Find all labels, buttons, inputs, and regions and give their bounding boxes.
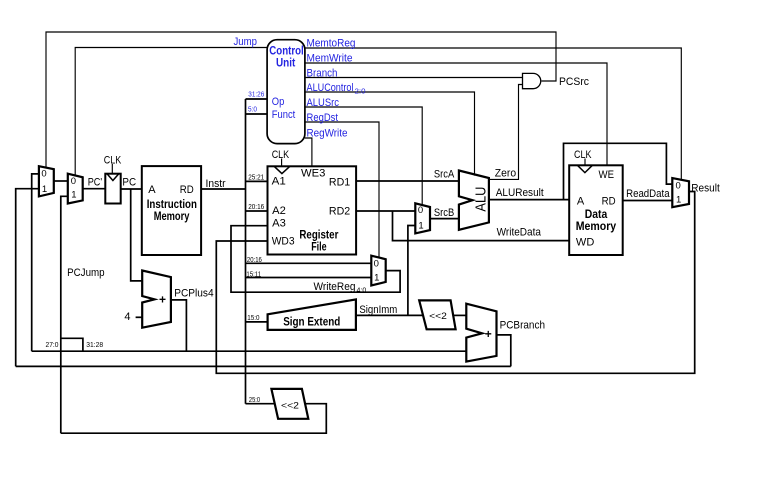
sign extend bbox=[268, 299, 356, 330]
svg-text:27:0: 27:0 bbox=[46, 342, 59, 349]
svg-text:RD1: RD1 bbox=[329, 177, 350, 189]
shifter <<2 (branch) bbox=[419, 300, 455, 329]
svg-text:20:16: 20:16 bbox=[247, 257, 262, 264]
wire ALUResult to data memory A bbox=[489, 199, 569, 201]
svg-text:WriteReg: WriteReg bbox=[314, 281, 356, 293]
adder PCBranch bbox=[466, 304, 496, 362]
svg-text:0: 0 bbox=[374, 258, 379, 269]
wire 20:16 to A2 bbox=[246, 210, 268, 212]
wire PCJump vertical into jump mux input 1 bbox=[61, 196, 68, 433]
svg-text:+: + bbox=[159, 293, 166, 307]
wire PCPlus4 feedback into PCSrc mux input 0 bbox=[32, 174, 39, 351]
svg-text:15:11: 15:11 bbox=[246, 271, 261, 278]
mux Result (0/1) bbox=[672, 178, 689, 207]
mux Jump (0/1) bbox=[68, 174, 83, 204]
svg-text:WD3: WD3 bbox=[272, 236, 295, 248]
svg-text:A: A bbox=[577, 196, 585, 208]
wire PCPlus4 adder output bbox=[171, 300, 187, 351]
svg-text:4: 4 bbox=[124, 311, 130, 323]
wire 15:0 to sign extend bbox=[246, 321, 268, 323]
svg-text:MemtoReg: MemtoReg bbox=[307, 38, 356, 50]
svg-text:PCSrc: PCSrc bbox=[559, 76, 589, 88]
svg-text:31:28: 31:28 bbox=[86, 342, 103, 349]
svg-text:Branch: Branch bbox=[307, 68, 338, 80]
svg-text:Sign Extend: Sign Extend bbox=[283, 317, 340, 329]
wire RD1 to ALU SrcA bbox=[356, 180, 459, 182]
data memory bbox=[569, 165, 623, 255]
wire Jump: control unit left to jump mux select bbox=[75, 48, 267, 176]
svg-text:SignImm: SignImm bbox=[359, 304, 397, 316]
svg-text:RD: RD bbox=[602, 196, 616, 208]
svg-text:RegDst: RegDst bbox=[307, 112, 339, 124]
svg-text:Memory: Memory bbox=[576, 221, 617, 233]
svg-text:WriteData: WriteData bbox=[497, 227, 542, 239]
wire branch adder output PCBranch bbox=[497, 335, 511, 367]
wire PCSrc net: AND output up and across top to PCSrc mux select bbox=[46, 32, 556, 168]
wire 31:28 concatenation tap bbox=[61, 338, 83, 351]
wire ALUResult bypass loop to result mux input 0 bbox=[564, 143, 673, 199]
svg-text:Op: Op bbox=[272, 96, 285, 108]
mux PCSrc (0/1) bbox=[39, 166, 54, 196]
svg-text:WE3: WE3 bbox=[301, 168, 325, 180]
svg-text:25:0: 25:0 bbox=[249, 397, 260, 404]
mux SrcB (0/1) bbox=[415, 203, 430, 233]
svg-text:SrcB: SrcB bbox=[434, 207, 454, 219]
svg-text:0: 0 bbox=[676, 180, 681, 191]
op-amp ALU bbox=[459, 171, 489, 230]
svg-text:31:26: 31:26 bbox=[248, 92, 264, 99]
svg-text:A2: A2 bbox=[272, 205, 286, 217]
svg-text:<<2: <<2 bbox=[281, 401, 299, 412]
svg-text:A: A bbox=[148, 184, 156, 196]
svg-text:A1: A1 bbox=[272, 176, 286, 188]
svg-text:2:0: 2:0 bbox=[355, 89, 366, 96]
svg-text:Register: Register bbox=[299, 229, 338, 241]
wire RD2 to SrcB mux input 0 bbox=[356, 210, 415, 212]
svg-text:CLK: CLK bbox=[272, 149, 290, 161]
register PC bbox=[105, 174, 120, 204]
svg-text:Jump: Jump bbox=[234, 36, 257, 48]
adder PCPlus4 bbox=[142, 271, 171, 328]
wire SignImm up to SrcB mux input 1 bbox=[408, 226, 415, 316]
shifter <<2 (jump) bbox=[271, 389, 308, 419]
svg-text:CLK: CLK bbox=[574, 149, 592, 161]
wire ALUSrc: control to SrcB mux select bbox=[305, 107, 422, 205]
wire PC branch down to PCPlus4 adder bbox=[131, 189, 143, 281]
svg-text:0: 0 bbox=[71, 176, 76, 187]
svg-text:Data: Data bbox=[585, 209, 608, 221]
svg-text:1: 1 bbox=[418, 220, 423, 231]
wire WriteData branch from RD2 to data memory WD bbox=[393, 211, 570, 241]
svg-text:PC: PC bbox=[122, 177, 136, 189]
svg-text:RD2: RD2 bbox=[329, 206, 350, 218]
svg-text:Instr: Instr bbox=[206, 178, 226, 190]
wire data memory CLK bbox=[584, 159, 586, 166]
svg-text:ALUSrc: ALUSrc bbox=[307, 97, 340, 109]
wire ReadData to result mux input 1 bbox=[623, 200, 673, 202]
svg-text:5:0: 5:0 bbox=[248, 107, 257, 114]
svg-text:Memory: Memory bbox=[154, 211, 190, 223]
wire branch shifter output to branch adder bbox=[453, 314, 466, 316]
svg-text:0: 0 bbox=[41, 168, 46, 179]
wire PCBranch feedback into PCSrc mux input 1 bbox=[16, 189, 39, 367]
svg-text:1: 1 bbox=[374, 272, 379, 283]
svg-text:Unit: Unit bbox=[276, 58, 295, 70]
svg-text:MemWrite: MemWrite bbox=[307, 53, 353, 65]
mux WriteReg (0/1) bbox=[371, 256, 385, 286]
wire 25:21 to A1 bbox=[246, 180, 268, 182]
svg-text:WD: WD bbox=[576, 236, 594, 248]
wire PCBranch bottom run bbox=[16, 365, 511, 367]
wire register file CLK bbox=[281, 159, 283, 167]
svg-text:PCJump: PCJump bbox=[67, 267, 105, 279]
svg-text:ReadData: ReadData bbox=[626, 188, 670, 200]
svg-text:Result: Result bbox=[691, 182, 720, 194]
wire RegDst: control to WriteReg mux select bbox=[305, 122, 379, 258]
control unit U1 bbox=[267, 40, 305, 144]
wire PCPlus4 bottom run bbox=[32, 350, 467, 352]
svg-text:ALUControl: ALUControl bbox=[307, 82, 354, 94]
svg-text:SrcA: SrcA bbox=[434, 168, 455, 180]
svg-text:4:0: 4:0 bbox=[357, 287, 367, 294]
svg-text:25:21: 25:21 bbox=[248, 175, 264, 182]
svg-text:RD: RD bbox=[180, 184, 194, 196]
wire 25:0 to jump shifter bbox=[246, 403, 275, 405]
svg-text:15:0: 15:0 bbox=[247, 315, 259, 322]
wire constant 4 stub bbox=[136, 316, 143, 318]
svg-text:<<2: <<2 bbox=[429, 311, 447, 322]
svg-text:1: 1 bbox=[676, 195, 681, 206]
wire PC to instruction memory A bbox=[121, 188, 142, 190]
svg-text:Control: Control bbox=[269, 45, 303, 57]
wire PC register CLK bbox=[111, 164, 113, 174]
wire WriteReg mux output to register file A3 bbox=[231, 226, 400, 293]
wire MemWrite: control to data memory WE bbox=[305, 63, 607, 165]
svg-text:PCPlus4: PCPlus4 bbox=[174, 288, 213, 300]
wire ALUControl: control to ALU bbox=[305, 92, 475, 176]
register file bbox=[268, 166, 357, 254]
gate AND (PCSrc) bbox=[523, 73, 541, 88]
wire Result feedback to register file WD3 bbox=[216, 192, 694, 374]
wire MemtoReg: control to result mux select bbox=[305, 48, 681, 180]
instruction memory bbox=[142, 166, 201, 255]
svg-text:A3: A3 bbox=[272, 218, 286, 230]
svg-text:WE: WE bbox=[599, 169, 615, 181]
svg-text:CLK: CLK bbox=[104, 154, 122, 166]
wire PC' jump mux to PC register bbox=[83, 188, 106, 190]
svg-text:1: 1 bbox=[71, 189, 76, 200]
svg-text:File: File bbox=[311, 242, 326, 254]
wire Zero from ALU to AND gate bbox=[489, 85, 522, 180]
wire Branch: control to AND gate input bbox=[305, 77, 523, 79]
svg-text:RegWrite: RegWrite bbox=[307, 128, 348, 140]
svg-text:PCBranch: PCBranch bbox=[500, 320, 545, 332]
wire 20:16 to WriteReg mux input 0 bbox=[246, 262, 372, 264]
svg-text:ALU: ALU bbox=[474, 187, 490, 212]
svg-text:1: 1 bbox=[42, 184, 47, 195]
wire SrcB mux output to ALU bbox=[430, 218, 459, 220]
wire Funct input 5:0 bbox=[246, 113, 268, 115]
svg-text:20:16: 20:16 bbox=[248, 204, 264, 211]
svg-text:+: + bbox=[485, 327, 492, 341]
wire 15:11 to WriteReg mux input 1 bbox=[246, 277, 372, 279]
svg-text:0: 0 bbox=[418, 205, 423, 216]
svg-text:Instruction: Instruction bbox=[147, 199, 197, 211]
svg-text:Zero: Zero bbox=[495, 168, 516, 180]
svg-text:Funct: Funct bbox=[272, 109, 296, 121]
wire RegWrite: control to register file WE3 bbox=[305, 138, 312, 166]
svg-text:PC': PC' bbox=[88, 177, 102, 189]
wire PCSrc mux output to jump mux input 0 bbox=[54, 180, 68, 182]
wire Op input 31:26 bbox=[246, 98, 268, 100]
wire Instr bus vertical bbox=[245, 99, 247, 404]
svg-text:ALUResult: ALUResult bbox=[496, 187, 544, 199]
wire SignImm from sign extend to branch shifter bbox=[356, 314, 423, 316]
wire PCJump bottom run bbox=[61, 404, 327, 434]
wire Instr from instruction memory bbox=[201, 188, 245, 190]
